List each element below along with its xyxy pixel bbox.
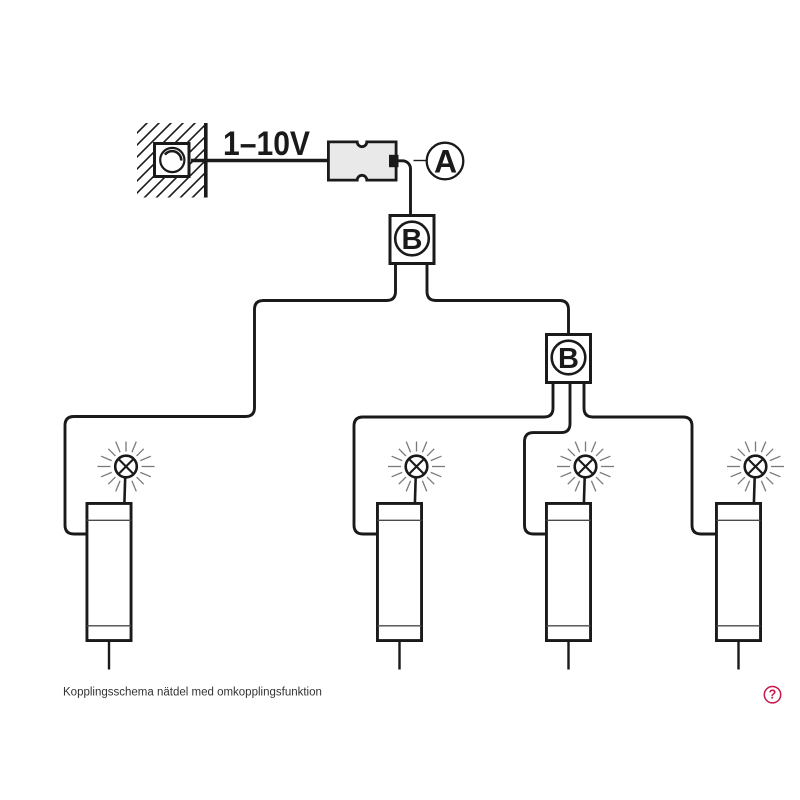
svg-text:B: B [558, 343, 579, 375]
svg-text:B: B [402, 224, 423, 256]
svg-text:?: ? [769, 688, 777, 702]
svg-text:A: A [434, 144, 457, 180]
svg-text:Kopplingsschema nätdel med omk: Kopplingsschema nätdel med omkopplingsfu… [63, 687, 322, 699]
svg-text:1–10V: 1–10V [223, 125, 310, 163]
